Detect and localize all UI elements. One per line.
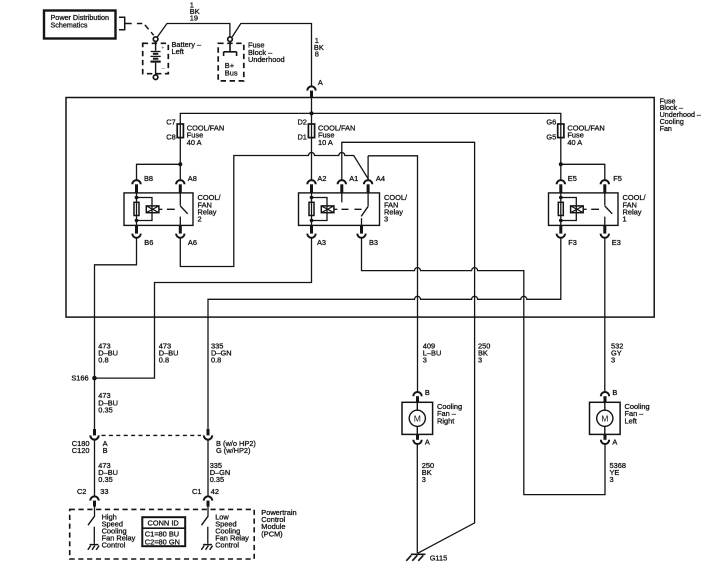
ground G115 [406, 553, 447, 562]
svg-text:D1: D1 [297, 132, 306, 141]
svg-text:G (w/HP2): G (w/HP2) [216, 446, 251, 455]
svg-text:B6: B6 [144, 238, 153, 247]
PCM ground low speed [201, 545, 212, 550]
relay COOL/FAN Relay 1 box [549, 193, 647, 226]
relay 1 linkage dash [591, 208, 599, 210]
svg-text:A6: A6 [188, 238, 197, 247]
dashed wire from reference box to battery terminal [137, 24, 154, 36]
svg-text:3: 3 [384, 215, 388, 224]
svg-text:S166: S166 [71, 374, 88, 383]
relay 1 coil [558, 193, 576, 226]
svg-text:33: 33 [100, 487, 108, 496]
svg-text:C8: C8 [166, 132, 175, 141]
svg-text:C7: C7 [166, 117, 175, 126]
svg-text:B8: B8 [144, 174, 153, 183]
svg-text:2: 2 [198, 215, 202, 224]
wire B3 to cooling fan left 5368 YE [362, 238, 606, 495]
svg-text:A4: A4 [376, 174, 385, 183]
svg-text:A: A [425, 438, 430, 447]
battery positive terminal circle [153, 37, 158, 42]
svg-text:CONN ID: CONN ID [148, 519, 179, 528]
wire S166 to connector C180 473 D-BU 0.35 [94, 378, 96, 429]
battery Battery - Left [143, 40, 202, 80]
connector E5 [557, 174, 577, 193]
label 473 D-BU 0.8 left [98, 341, 118, 364]
svg-text:+: + [161, 45, 164, 51]
label 5368 YE 3 [610, 461, 626, 484]
svg-text:Right: Right [437, 416, 454, 425]
relay 3 linkage dashes [342, 208, 362, 210]
svg-text:Fan: Fan [660, 125, 672, 133]
relay 3 contact [361, 193, 368, 226]
relay 2 coil [134, 193, 152, 226]
connector A cooling fan left [601, 434, 618, 446]
svg-text:Control: Control [102, 540, 126, 549]
splice S166 [71, 374, 96, 383]
CONN ID table [142, 517, 185, 546]
connector A2 [307, 174, 326, 193]
svg-text:10 A: 10 A [318, 138, 333, 147]
svg-text:F5: F5 [613, 174, 622, 183]
label 250 BK 3 lower [422, 461, 434, 484]
svg-text:3: 3 [423, 356, 427, 365]
connector B3 [357, 225, 378, 247]
svg-text:C1: C1 [192, 487, 201, 496]
svg-text:(PCM): (PCM) [261, 529, 282, 538]
fuse block underhood cooling fan outer box [66, 98, 654, 318]
label 335 D-GN 0.35 [210, 461, 231, 484]
connector A3 [307, 225, 326, 247]
connector C120 pin B/G [204, 429, 256, 455]
fuse D2 D1 COOL/FAN Fuse 10 A [297, 117, 355, 147]
high speed relay control switch [88, 507, 95, 544]
label Fuse Block - Underhood - Cooling Fan [660, 97, 701, 133]
label 250 BK 3 upper [478, 341, 490, 364]
connector A6 [176, 225, 197, 247]
svg-text:B3: B3 [369, 238, 378, 247]
label High Speed Cooling Fan Relay Control [102, 512, 136, 549]
svg-text:E5: E5 [568, 174, 577, 183]
wire A3 to splice S166 473 D-BU [95, 238, 312, 378]
wire 1 BK 8 B+ bus to connector A [232, 24, 311, 87]
connector F3 [557, 225, 577, 247]
svg-text:A1: A1 [349, 174, 358, 183]
svg-text:3: 3 [422, 475, 426, 484]
wire fuse D1 to relay 3 pin A2 [311, 138, 313, 181]
fuse G6 G5 COOL/FAN Fuse 40 A [546, 117, 604, 147]
wire fuse C8 to relay 2 pins A8 and B8 [137, 138, 181, 181]
label 409 L-BU 3 [423, 341, 442, 364]
svg-text:G5: G5 [546, 132, 556, 141]
svg-text:C120: C120 [72, 446, 90, 455]
wire A6 to A4 [180, 153, 368, 267]
relay 2 contact [180, 193, 187, 226]
svg-text:A3: A3 [317, 238, 326, 247]
svg-text:40 A: 40 A [187, 138, 202, 147]
relay 3 coil [309, 193, 327, 226]
wire F3 to connector C120 335 D-GN [208, 238, 561, 429]
svg-text:0.35: 0.35 [210, 475, 224, 484]
cooling fan left motor [590, 402, 650, 434]
svg-text:Left: Left [625, 416, 637, 425]
svg-text:0.8: 0.8 [211, 356, 221, 365]
svg-text:8: 8 [315, 50, 319, 59]
svg-text:F3: F3 [568, 238, 577, 247]
label 532 GY 3 [611, 341, 623, 364]
relay COOL/FAN Relay 3 box [299, 193, 408, 226]
PCM ground high speed [88, 545, 99, 550]
PCM dashed box [70, 509, 255, 559]
svg-text:A: A [612, 438, 617, 447]
connector A cooling fan right [413, 434, 430, 446]
svg-text:Underhood: Underhood [248, 55, 285, 64]
svg-text:D2: D2 [297, 117, 306, 126]
svg-text:C2: C2 [77, 487, 86, 496]
relay 2 suppression element [146, 206, 162, 213]
svg-text:M: M [601, 414, 608, 424]
svg-text:Bus: Bus [225, 68, 238, 77]
svg-text:42: 42 [211, 487, 219, 496]
label 473 D-BU 0.35 lower [98, 461, 118, 484]
connector C2 pin 33 [77, 487, 109, 507]
svg-text:M: M [414, 414, 421, 424]
svg-text:Control: Control [215, 540, 239, 549]
connector C1 pin 42 [192, 487, 219, 507]
relay 3 pin A1 stub [341, 193, 343, 203]
B+ bus bar symbol [224, 42, 237, 57]
svg-text:B: B [103, 446, 108, 455]
svg-text:G115: G115 [430, 553, 448, 562]
fuse C7 C8 COOL/FAN Fuse 40 A [166, 117, 224, 147]
relay COOL/FAN Relay 2 box [124, 193, 221, 226]
label 473 D-BU 0.8 mid [159, 341, 179, 364]
dashed box Fuse Block - Underhood with B+ Bus [218, 41, 284, 81]
svg-text:E3: E3 [612, 238, 621, 247]
B+ bus terminal circle [228, 37, 233, 42]
wire fuse G5 to relay 1 pins E5 and F5 [561, 138, 605, 181]
wire B6 to splice S166 473 D-BU [95, 238, 137, 376]
wire A1 to ground splice 250 BK [342, 142, 475, 553]
svg-text:1: 1 [623, 215, 627, 224]
dashed connector linkage C180/C120 [102, 434, 202, 436]
svg-text:3: 3 [610, 475, 614, 484]
svg-text:0.35: 0.35 [98, 475, 112, 484]
junction node fuse G5 branch [559, 162, 563, 166]
svg-text:A8: A8 [188, 174, 197, 183]
connector A1 [338, 174, 359, 193]
cooling fan right motor [402, 402, 462, 434]
label 1 BK 19 [190, 1, 200, 23]
label Powertrain Control Module (PCM) [261, 508, 296, 539]
wire E3 to cooling fan left 532 GY [604, 238, 606, 392]
connector B cooling fan right [413, 388, 430, 402]
low speed relay control switch [202, 507, 209, 544]
wire C180 to PCM pin 33 473 D-BU 0.35 [94, 440, 96, 497]
bracket on reference box [119, 17, 132, 30]
svg-text:0.8: 0.8 [98, 356, 108, 365]
svg-text:40 A: 40 A [567, 138, 582, 147]
relay 3 suppression element [321, 206, 337, 213]
svg-text:3: 3 [611, 356, 615, 365]
svg-text:B: B [425, 388, 430, 397]
svg-text:Left: Left [172, 47, 184, 56]
relay 1 suppression element [571, 206, 587, 213]
connector A [307, 78, 323, 97]
svg-text:A2: A2 [317, 174, 326, 183]
reference box Power Distribution Schematics [44, 11, 116, 39]
wire C120 to PCM pin 42 335 D-GN 0.35 [207, 440, 209, 497]
relay 2 linkage dash [167, 208, 175, 210]
svg-text:19: 19 [190, 14, 198, 23]
wire cooling fan right to ground G115 250 BK [416, 444, 418, 553]
connector B cooling fan left [601, 388, 618, 402]
svg-text:A: A [318, 78, 323, 87]
svg-text:C2=80 GN: C2=80 GN [145, 538, 180, 547]
svg-text:Schematics: Schematics [51, 20, 88, 29]
svg-text:B: B [612, 388, 617, 397]
svg-text:0.35: 0.35 [98, 406, 112, 415]
relay 1 contact [605, 193, 612, 226]
label Low Speed Cooling Fan Relay Control [215, 512, 249, 549]
wire A4 to cooling fan right 409 L-BU [368, 156, 417, 392]
label 335 D-GN 0.8 [211, 341, 232, 364]
connector A8 [176, 174, 197, 193]
svg-text:–: – [162, 66, 166, 72]
connector A4 [364, 174, 385, 193]
svg-text:G6: G6 [546, 117, 556, 126]
connector B8 [132, 174, 153, 193]
connector E3 [601, 225, 621, 247]
wire connector A down to internal bus [311, 98, 313, 125]
svg-text:0.8: 0.8 [159, 356, 169, 365]
junction node at bus and connector A wire [310, 111, 314, 115]
connector B6 [132, 225, 153, 247]
label 1 BK 8 [314, 36, 324, 58]
connector F5 [601, 174, 622, 193]
connector C180 C120 pin A/B [72, 429, 108, 455]
label 473 D-BU 0.35 [98, 391, 118, 414]
svg-text:3: 3 [478, 356, 482, 365]
wire 1 BK 19 battery to B+ bus [157, 24, 230, 37]
junction node fuse C8 branch [178, 162, 182, 166]
internal bus wire across fuse tops [180, 113, 561, 124]
